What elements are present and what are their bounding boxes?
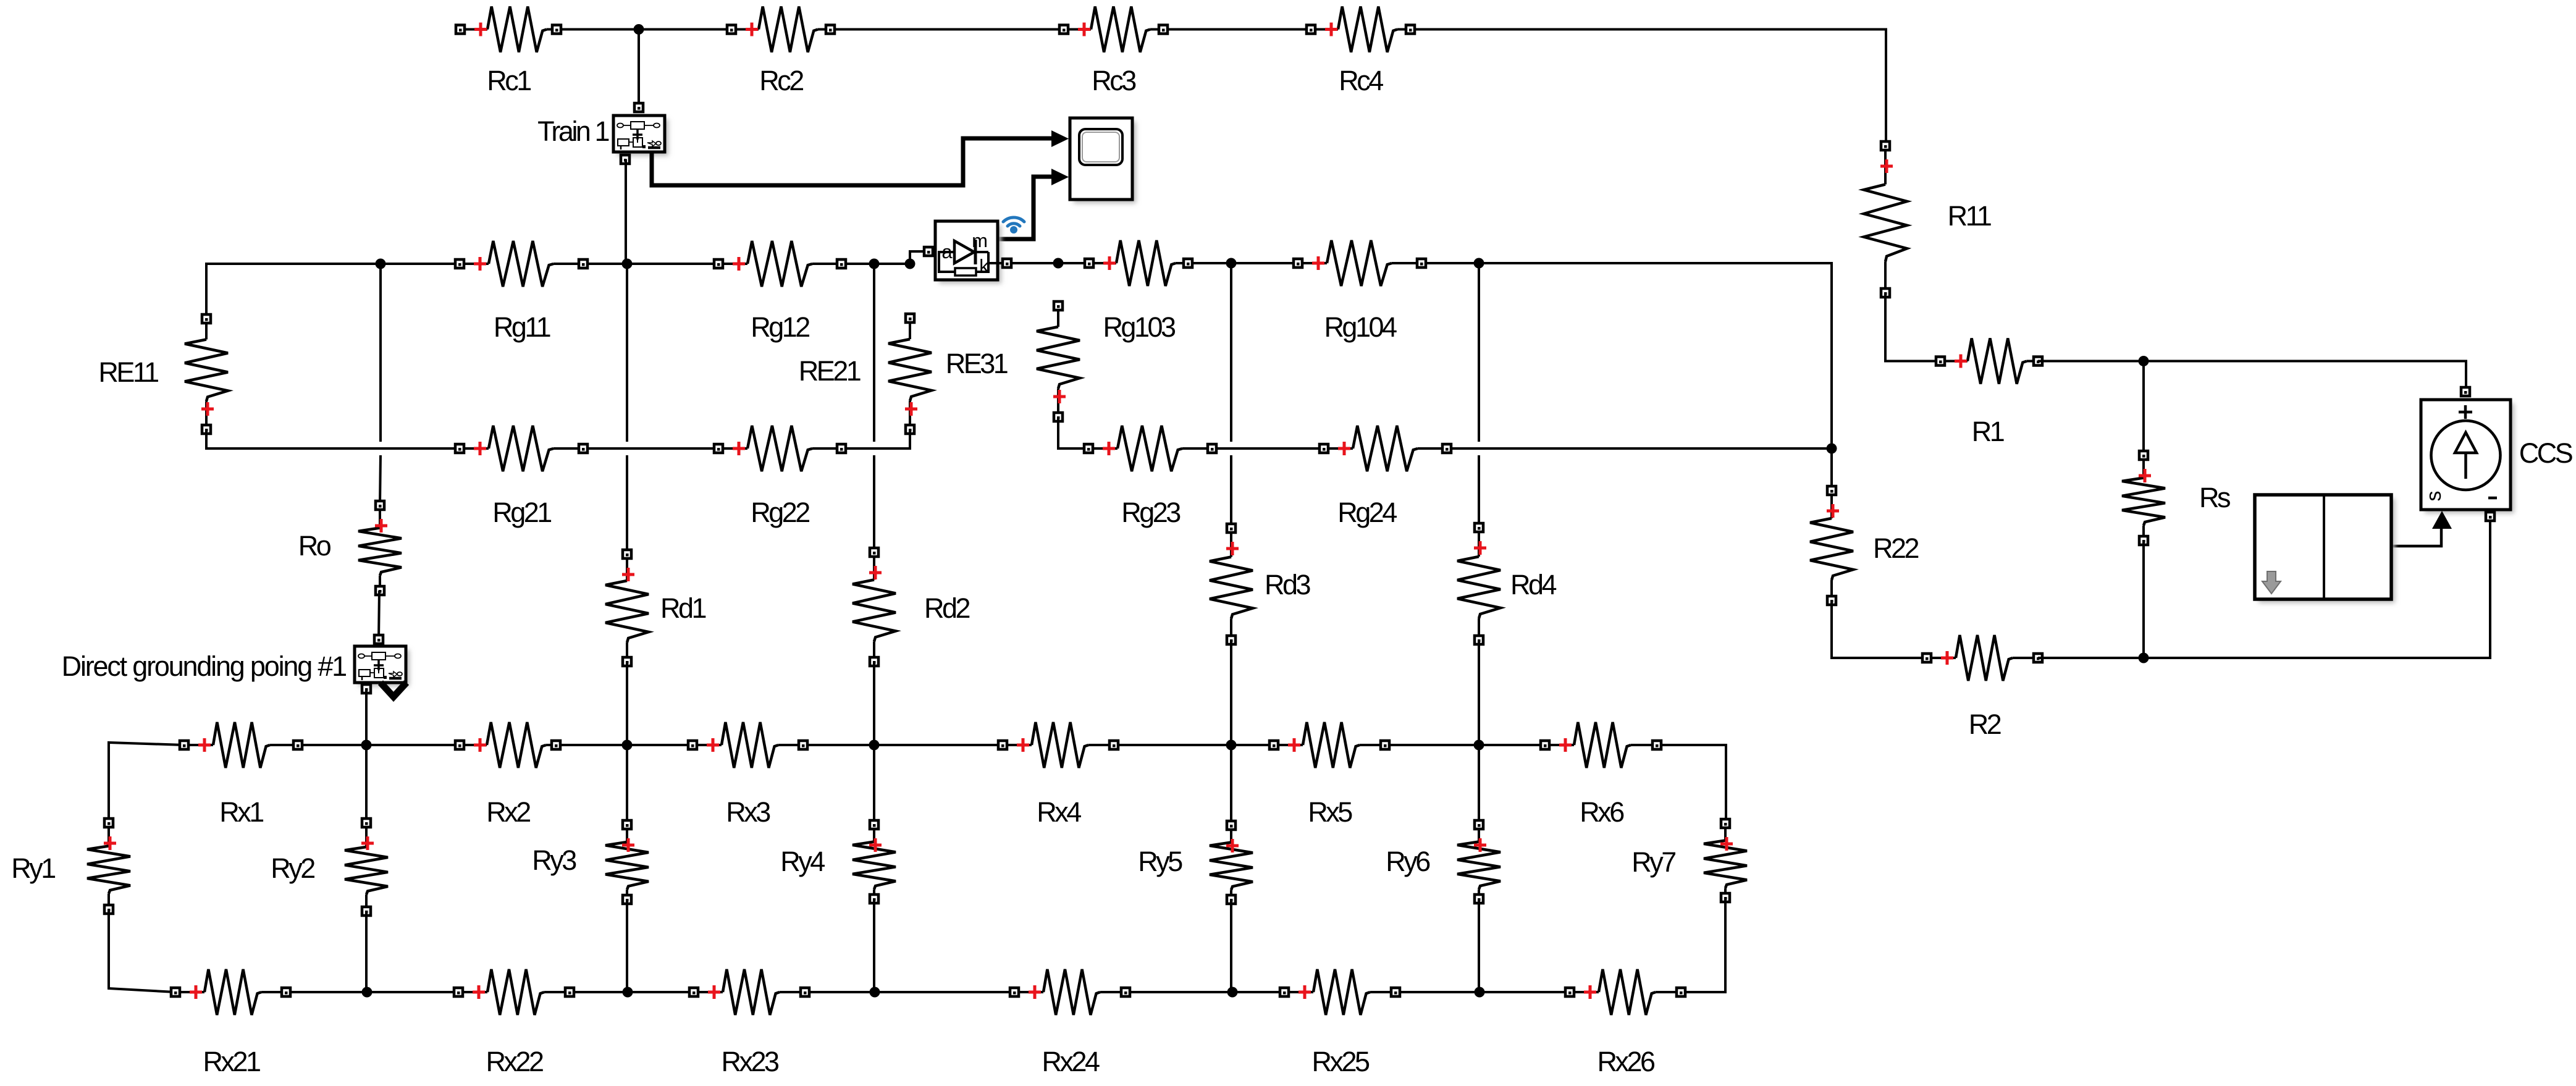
wire row D left end to Rx1 [109,743,184,823]
svg-text:RE31: RE31 [946,348,1008,379]
svg-text:Ry7: Ry7 [1631,846,1675,878]
svg-text:Rc1: Rc1 [487,65,531,96]
controlled current source CCS [2421,387,2572,521]
wire Ry6 upper stub [1478,745,1480,825]
node row E / Ry3 junction [623,987,633,998]
wire row C: Rg22 to RE21 bottom [841,429,910,448]
svg-text:R2: R2 [1969,709,2001,740]
wire Train 1 bottom riser to row B [625,159,627,264]
svg-text:Ry1: Ry1 [11,852,55,884]
resistor Ry1 [11,819,130,914]
wire row C: Rg24 to R22 column [1447,447,1832,450]
svg-text:Rg103: Rg103 [1103,311,1176,343]
wire Rs top stub [2142,361,2145,456]
node row B / Rd1 column junction [622,259,633,269]
arrowhead Scope input 2 [1051,169,1069,185]
svg-text:Rg104: Rg104 [1324,311,1397,343]
wire Ry2 lower stub [365,911,368,992]
resistor Rg23 [1084,426,1216,528]
resistor Rc4 [1307,7,1415,97]
scope block [1070,118,1136,203]
subsystem block Direct grounding poing #1 [62,635,410,693]
wire Train 1 top riser [638,30,640,108]
wire Rd3 column middle (crossover to Rd3) [1230,455,1232,528]
svg-text:Rd2: Rd2 [924,592,970,624]
resistor Rx1 [180,722,302,828]
diode block D1 (a/m/k) [924,221,1011,284]
wire Ry4 upper stub [873,745,875,825]
wire Ry3 lower stub [626,899,628,992]
wire row E: Rx21 to Rx22 [286,991,458,993]
resistor R22 [1810,486,1918,605]
resistor Rx5 [1269,722,1389,828]
svg-text:k: k [979,255,989,277]
wire Rd2 column middle (crossover to Rd2) [873,455,875,552]
resistor Rx25 [1280,969,1400,1077]
wire row D: Rx6 to Ry7 corner [1657,745,1726,823]
resistor Rg103 [1085,240,1192,343]
svg-text:Rc4: Rc4 [1339,65,1383,96]
resistor Rs [2122,451,2230,545]
wire row D: Rx4 to Rx5 [1114,744,1274,746]
wire row E: Rx26 to Ry7 corner [1681,898,1725,992]
resistor Ry7 [1631,819,1747,902]
node row E / Ry2 junction [362,987,373,998]
wire top rail: Rc2 to Rc3 [830,28,1064,31]
svg-text:Direct grounding poing #1: Direct grounding poing #1 [62,650,347,682]
subsystem block Train 1 [537,103,668,164]
resistor Rc2 [727,7,835,97]
svg-text:Rd4: Rd4 [1510,569,1557,600]
resistor Rg21 [455,426,587,528]
node row E / Ry4 junction [870,987,880,998]
node row B / Rd2 column junction [869,259,880,269]
svg-text:Rd1: Rd1 [660,592,706,624]
resistor Rx26 [1565,969,1685,1077]
svg-text:Ry5: Ry5 [1138,846,1182,877]
resistor Rx4 [998,722,1118,828]
wire signal wire: Diode m to Scope input 2 [998,177,1051,239]
resistor Ry2 [271,819,388,916]
wire Rd1 to row D [626,662,628,745]
resistor RE21 [799,314,932,434]
svg-text:s: s [2422,491,2446,502]
svg-text:Rg12: Rg12 [751,311,809,343]
arrowhead Scope input 1 [1051,130,1069,147]
svg-text:RE21: RE21 [799,355,861,387]
svg-text:Rx2: Rx2 [486,796,530,828]
svg-text:R11: R11 [1948,200,1991,232]
wire Ro to grounding block [379,591,379,639]
svg-text:Rx5: Rx5 [1308,796,1352,828]
svg-text:RE11: RE11 [98,356,158,388]
svg-text:Rg24: Rg24 [1337,497,1397,528]
wire row D: Rx3 to Rx4 [803,744,1003,746]
svg-text:Ry3: Ry3 [532,844,576,876]
svg-text:Rg21: Rg21 [492,497,551,528]
node row B / Rd3 column junction [1226,258,1237,269]
resistor RE31 [946,301,1080,421]
wireless logging badge [1003,217,1024,234]
node row B / RE31 junction [1053,258,1064,269]
resistor Rd4 [1457,523,1556,644]
node row B / Ro column junction [376,259,386,269]
wire Rd3 column upper (row B to crossover) [1230,263,1232,442]
svg-text:Ry6: Ry6 [1386,846,1430,877]
wire R1 to CCS top [2038,361,2466,392]
svg-text:R22: R22 [1873,532,1919,564]
wire row E: Rx22 to Rx23 [570,991,694,993]
resistor Rx3 [688,722,807,828]
resistor Rx24 [1010,969,1130,1077]
resistor R1 [1936,339,2042,448]
wire stub to diode anode [910,251,923,264]
svg-text:m: m [972,230,988,251]
svg-text:Rx3: Rx3 [726,796,770,828]
svg-text:Rx23: Rx23 [721,1046,779,1077]
wire top rail: Rc3 to Rc4 [1163,28,1311,31]
svg-text:Rx4: Rx4 [1037,796,1081,828]
wire Ry6 lower stub [1478,899,1480,992]
resistor Ry5 [1138,821,1253,904]
wire R11 to R1 [1885,293,1940,361]
wire Ry5 lower stub [1230,899,1232,992]
svg-text:Rd3: Rd3 [1265,569,1311,600]
wire Rd2 column upper (row B to crossover) [873,264,875,442]
resistor Rc3 [1059,7,1168,97]
svg-text:R1: R1 [1972,416,2004,447]
ground chevron [381,683,406,697]
resistor Rg24 [1320,426,1451,528]
wire R22 to R2 [1832,600,1927,658]
svg-text:Rg22: Rg22 [751,497,809,528]
svg-text:Rg23: Rg23 [1121,497,1181,528]
wire top rail: Rc4 to R11 column [1410,30,1886,146]
resistor Ry4 [780,820,896,903]
wire row E: Rx25 to Rx26 [1395,991,1570,993]
arrowhead into CCS s input [2432,511,2452,529]
resistor Rd1 [605,550,705,666]
resistor Rg11 [455,241,587,343]
wire Rd4 to row D [1478,640,1480,745]
node R2 row / Rs junction [2139,653,2149,663]
wire row C: Rg21 to Rg22 [583,447,718,450]
resistor Rg104 [1294,240,1426,343]
svg-text:CCS: CCS [2519,437,2572,469]
wire row D: Rx2 to Rx3 [556,744,692,746]
resistor R11 [1864,141,1991,297]
svg-text:Rc2: Rc2 [759,65,803,96]
wire Ro column lower (crossover to Ro) [380,455,381,505]
wire Rd1 column middle (crossover to Rd1) [626,455,628,554]
svg-text:Rx6: Rx6 [1580,796,1624,828]
node row B / Rd4 column junction [1474,258,1484,269]
resistor Rx2 [455,722,560,828]
wire Rd1 column upper (row B to crossover) [626,264,628,442]
wire Ry2 upper stub [365,745,368,823]
svg-text:Ry4: Ry4 [780,846,825,877]
node row D / Rd4 junction [1474,740,1484,751]
node R1 row / Rs junction [2139,356,2149,366]
wire row E: Rx23 to Rx24 [805,991,1014,993]
svg-text:Rx1: Rx1 [219,796,263,828]
wire Ry3 upper stub [626,745,628,825]
svg-text:Ro: Ro [298,530,331,562]
resistor Rx22 [454,969,574,1077]
svg-text:a: a [941,241,953,263]
svg-text:Train 1: Train 1 [537,116,608,147]
source data block (two-pane with gray arrow) [2255,495,2395,603]
wire row C: RE11 corner to Rg21 [206,429,460,448]
wire row C: Rg23 to Rg24 [1212,447,1324,450]
svg-text:Rx22: Rx22 [486,1046,543,1077]
wire top rail: Rc1 to Rc2 via Train 1 tap [557,28,731,31]
resistor Rx6 [1541,722,1661,828]
svg-text:Rx25: Rx25 [1311,1046,1370,1077]
wire row B: Rg12 to diode-a stub [841,263,910,265]
wire Ry4 lower stub [873,899,875,992]
resistor RE11 [98,314,228,434]
svg-text:Rg11: Rg11 [494,311,550,343]
svg-text:Rx24: Rx24 [1042,1046,1100,1077]
wire row E left end to Rx21 [109,909,175,992]
node row D / Rd3 junction [1226,740,1237,751]
node row D / Rd2 junction [869,740,880,751]
wire row B: Rg103 to Rg104 [1188,262,1298,264]
resistor Rx23 [689,969,809,1077]
wire grounding block to row D [365,689,368,745]
resistor Ro [298,501,402,595]
node row E / Ry5 junction [1227,987,1238,998]
node R22 column / row C junction [1827,444,1837,454]
wire Rd4 column middle (crossover to Rd4) [1478,455,1480,528]
wire row B: Rg11 to Rg12 [583,263,718,265]
node row E / Ry6 junction [1475,987,1485,998]
node row D / Rd1 junction [622,740,633,751]
wire Rd2 to row D [873,662,875,745]
resistor Rg12 [714,241,846,343]
wire signal wire: Train 1 to Scope input 1 [652,138,1051,185]
node row B / RE21 junction [905,259,915,269]
resistor Ry3 [532,820,649,904]
svg-text:Rc3: Rc3 [1092,65,1136,96]
node row D / Ry2 junction [361,740,372,751]
wire Ro column upper (row B to row C crossover) [379,264,382,442]
resistor R2 [1922,635,2042,740]
wire R2 to CCS minus [2038,517,2490,658]
wire row B: Rg104 to R22 column corner [1421,263,1832,490]
wire row C: RE31 bottom to Rg23 [1058,417,1088,448]
wire row B: RE11 corner to Rg11 [206,264,460,319]
svg-text:Rx26: Rx26 [1597,1046,1655,1077]
svg-text:Rs: Rs [2199,482,2230,513]
resistor Rx21 [171,969,290,1077]
wire row D: Rx5 to Rx6 [1385,744,1545,746]
svg-text:Rx21: Rx21 [203,1046,260,1077]
wire Rs bottom stub [2142,541,2145,658]
wire Rd4 column upper (row B to crossover) [1478,263,1480,442]
wire signal wire: file block to CCS s input [2391,525,2441,546]
resistor Rd3 [1210,524,1310,644]
resistor Ry6 [1386,820,1501,903]
resistor Rd2 [852,548,969,666]
wire Rd3 to row D [1230,640,1232,745]
svg-text:Ry2: Ry2 [271,852,314,884]
wire row B: diode k to Rg103 [1012,262,1089,264]
wire row D: Rx1 to Rx2 [298,744,460,746]
node top rail / Train 1 junction [634,24,644,35]
resistor Rc1 [456,7,561,97]
wire Ry5 upper stub [1230,745,1232,825]
wire row E: Rx24 to Rx25 [1126,991,1284,993]
resistor Rg22 [714,426,846,528]
